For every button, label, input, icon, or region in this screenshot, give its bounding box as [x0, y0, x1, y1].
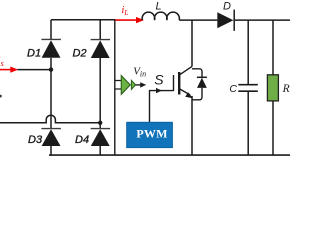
wire L/D junction to IGBT collector [191, 20, 193, 67]
capacitor C [238, 20, 257, 155]
svg-text:C: C [229, 83, 237, 95]
body bar [178, 72, 180, 95]
wire AC return with hop over D1-D3 branch [0, 115, 100, 123]
svg-text:PWM: PWM [136, 127, 167, 141]
svg-text:D4: D4 [75, 134, 89, 146]
svg-text:D3: D3 [28, 134, 43, 146]
transistor S (IGBT) [174, 66, 193, 155]
diode D1 [41, 20, 61, 70]
wire is arrow to D1 branch [18, 69, 52, 71]
diode D4 [91, 123, 111, 155]
collector diagonal [180, 66, 192, 74]
node junction dot right [98, 121, 102, 125]
inductor L [142, 12, 179, 20]
label vs fragment at left edge [0, 95, 2, 98]
current arrow iL [115, 17, 144, 23]
wire bottom bus [49, 154, 290, 156]
wire top bus right (D cathode to right edge) [233, 19, 290, 21]
probe Vin (voltage sensor symbol) [121, 76, 146, 95]
diode antiparallel across IGBT [192, 69, 207, 100]
gate bar [173, 75, 175, 91]
svg-text:D2: D2 [73, 48, 87, 60]
wire top bus left (bridge output to iL arrow) [51, 19, 115, 21]
diode D [217, 10, 234, 31]
emitter vertical to bottom bus [191, 96, 193, 155]
wire Vin probe stubs [115, 81, 121, 90]
emitter diagonal with arrow [180, 89, 191, 95]
svg-text:S: S [154, 71, 164, 87]
svg-text:R: R [282, 83, 290, 95]
svg-text:D1: D1 [27, 48, 41, 60]
resistor R [267, 20, 278, 155]
diode D2 [91, 20, 111, 123]
wire inductor to diode D [179, 19, 217, 21]
wire Vin sense branch (top bus to bottom bus) [114, 20, 116, 155]
svg-text:L: L [156, 1, 162, 13]
diode D3 [41, 129, 61, 156]
wire PWM output to gate with arrow [150, 88, 174, 122]
current arrow is [0, 67, 18, 73]
wire D1 to D3 vertical [50, 70, 52, 129]
svg-text:D: D [223, 0, 231, 12]
block PWM [127, 122, 173, 147]
node junction dot left [49, 67, 53, 71]
